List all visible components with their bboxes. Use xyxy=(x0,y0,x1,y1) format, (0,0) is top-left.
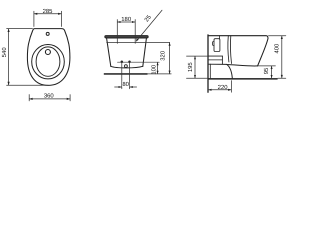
rim band xyxy=(105,36,148,38)
dimension 100 (middle right inner) xyxy=(157,63,159,74)
step vertical xyxy=(221,56,223,64)
left side xyxy=(107,38,111,66)
bolt dot right xyxy=(128,60,131,63)
dimension 195 (left of wall) xyxy=(187,56,208,78)
floor extension line xyxy=(148,73,172,75)
tap hole xyxy=(46,32,49,35)
dimension 320 (middle right outer) xyxy=(169,43,171,74)
drain shroud front curve xyxy=(227,65,233,79)
svg-text:195: 195 xyxy=(187,62,194,73)
leader 25 xyxy=(136,10,162,41)
base bottom curve xyxy=(111,66,143,68)
floor band (right view) xyxy=(208,78,278,80)
underside line xyxy=(227,65,258,66)
dimension 540 (left vertical) xyxy=(7,29,49,86)
svg-text:220: 220 xyxy=(218,84,229,91)
svg-text:100: 100 xyxy=(151,64,158,75)
shroud back vertical xyxy=(209,64,211,78)
trap curve 1 xyxy=(228,36,229,62)
bowl top level line xyxy=(107,41,170,43)
svg-text:400: 400 xyxy=(273,43,280,54)
body top edge xyxy=(208,36,268,39)
right side xyxy=(143,38,147,66)
bolt dot left xyxy=(121,60,124,63)
drain hole xyxy=(45,50,50,55)
floor band (middle view) xyxy=(104,73,148,75)
svg-text:320: 320 xyxy=(159,50,166,61)
svg-text:180: 180 xyxy=(121,16,132,23)
basin rim outer oval xyxy=(32,45,65,79)
fixing bolts line xyxy=(118,61,160,63)
bracket top link xyxy=(219,36,221,39)
dimension 220 (bottom) xyxy=(208,81,231,93)
svg-text:285: 285 xyxy=(43,8,54,15)
basin bowl inner oval xyxy=(36,47,60,76)
dimension 285 (top) xyxy=(34,11,62,26)
svg-text:360: 360 xyxy=(44,93,55,100)
base drain circle xyxy=(125,65,128,68)
trap curve 2 xyxy=(230,36,231,64)
dimension 180 xyxy=(117,20,135,44)
wall line xyxy=(207,35,209,92)
mid step line xyxy=(208,59,222,61)
svg-text:540: 540 xyxy=(1,47,8,58)
bracket level line xyxy=(208,55,222,57)
dimension 360 (bottom) xyxy=(29,95,70,101)
svg-text:80: 80 xyxy=(122,81,129,88)
front face curve xyxy=(258,39,268,66)
dimension 400 (right outer) xyxy=(269,36,286,78)
fixing bracket xyxy=(214,39,220,52)
bracket tab xyxy=(213,42,215,46)
dimension 80 (bottom middle) xyxy=(115,62,137,89)
svg-text:95: 95 xyxy=(263,67,270,74)
underside back line xyxy=(208,63,227,65)
svg-text:25: 25 xyxy=(143,13,153,23)
body outline xyxy=(27,29,70,86)
dimension 95 (right inner) xyxy=(258,66,275,78)
